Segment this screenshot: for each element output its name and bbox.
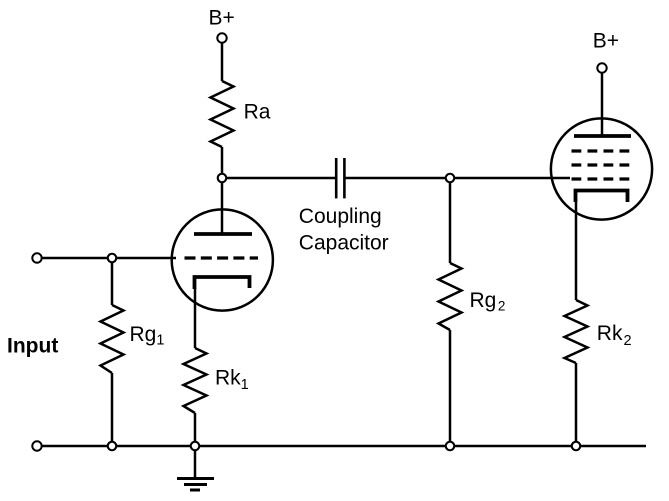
capacitor coupling capacitor plate right [343, 158, 346, 198]
node plate of V1 (junction) [218, 174, 227, 183]
wire grid node to Rg2 [449, 183, 452, 263]
tube V2 grid 3 [572, 149, 630, 152]
node input junction [108, 254, 117, 263]
tube V2 envelope [551, 118, 652, 219]
wire plate node to coupling capacitor [222, 177, 335, 180]
tube V1 plate [194, 232, 252, 236]
tube V2 cathode [576, 191, 628, 203]
tube V2 grid 1 [572, 177, 630, 180]
wire ground node to ground symbol [194, 451, 197, 478]
tube V1 envelope [172, 209, 273, 310]
resistor Rg2 [439, 263, 462, 330]
node Rk2 ground junction [572, 442, 581, 451]
wire Rk2 to ground rail [575, 363, 578, 446]
wire V2 cathode to Rk2 [575, 202, 578, 300]
svg-text:B+: B+ [593, 30, 619, 53]
wire B+ to V2 plate [601, 74, 604, 137]
tube V1 cathode [195, 277, 250, 289]
wire V1 cathode to Rk1 [194, 289, 197, 348]
tube V2 grid 2 [572, 163, 630, 166]
terminal B+ stage 2 [597, 63, 606, 72]
capacitor coupling capacitor plate left [335, 158, 338, 198]
tube V2 plate [574, 134, 631, 138]
wire Ra to plate node [221, 147, 224, 178]
svg-text:Capacitor: Capacitor [299, 231, 389, 254]
wire capacitor to grid node [345, 177, 450, 180]
wire Rk1 to ground node [194, 413, 197, 446]
wire grid node to V2 grid [450, 177, 570, 180]
resistor Rk2 [565, 300, 588, 363]
node grid of V2 (junction) [446, 174, 455, 183]
wire B+ to Ra [221, 44, 224, 82]
wire ground rail [43, 445, 647, 448]
svg-text:Coupling: Coupling [299, 205, 382, 228]
svg-text:B+: B+ [209, 7, 235, 30]
terminal B+ stage 1 [217, 33, 226, 42]
tube V1 grid [185, 256, 259, 259]
wire input node to Rg1 [111, 263, 114, 305]
node Rg1 ground junction [108, 442, 117, 451]
node Rg2 ground junction [446, 442, 455, 451]
wire Rg2 to ground rail [449, 330, 452, 446]
ground [177, 479, 214, 491]
wire input to V1 grid [43, 257, 177, 260]
node Rk1 ground junction [191, 442, 200, 451]
label Coupling Capacitor [299, 205, 389, 255]
terminal input top [32, 253, 41, 262]
resistor Ra [211, 81, 234, 147]
svg-text:Input: Input [7, 335, 58, 358]
svg-text:Ra: Ra [244, 100, 271, 123]
terminal input bottom [32, 441, 41, 450]
resistor Rg1 [101, 305, 124, 373]
wire plate node to V1 plate [221, 183, 224, 234]
resistor Rk1 [184, 348, 207, 413]
wire Rg1 to ground rail [111, 373, 114, 446]
